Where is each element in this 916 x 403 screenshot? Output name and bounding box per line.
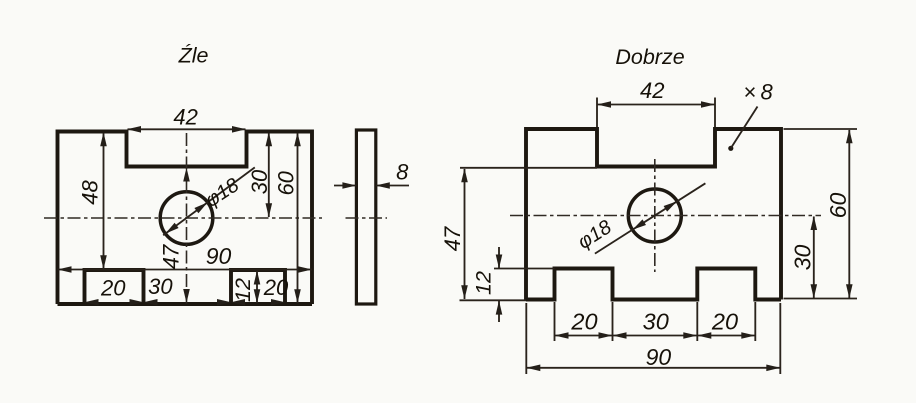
svg-text:30: 30: [790, 245, 816, 271]
dimension 47 right view: [460, 167, 597, 169]
svg-text:42: 42: [173, 105, 197, 130]
left view horizontal centerline: [44, 217, 322, 219]
svg-text:47: 47: [159, 244, 184, 269]
left view bottom notch 2: [231, 270, 285, 304]
dimension 30 left view: [268, 133, 270, 217]
svg-text:Dobrze: Dobrze: [615, 45, 684, 69]
svg-text:30: 30: [148, 274, 173, 299]
dimension 42 right view: [596, 98, 598, 128]
svg-text:60: 60: [274, 170, 299, 195]
dimension 42 top: [128, 128, 246, 130]
note x8 thickness: [728, 146, 733, 151]
dimension 20 bottom-left: [85, 299, 99, 306]
svg-text:φ18: φ18: [574, 216, 616, 254]
svg-text:12: 12: [231, 278, 255, 302]
dimension 12 left view: [256, 271, 258, 303]
dimension 30 bottom: [144, 299, 158, 306]
svg-text:30: 30: [643, 309, 669, 335]
dimension 60 left view: [297, 133, 299, 303]
dimension 47 left view: [183, 168, 190, 182]
extension lines right side: [784, 128, 858, 130]
svg-text:20: 20: [711, 309, 738, 335]
dimension 30 right side: [813, 217, 815, 299]
dimension 90 left view: [58, 269, 313, 271]
dimension 12 right view: [494, 268, 555, 270]
svg-text:90: 90: [206, 243, 232, 269]
left view vertical centerline: [186, 133, 188, 304]
svg-text:20: 20: [570, 309, 597, 335]
side view centerline: [346, 217, 388, 219]
svg-text:42: 42: [640, 78, 664, 103]
svg-text:20: 20: [100, 276, 126, 301]
dimension phi18 right view: [595, 183, 706, 253]
dimension 48: [103, 133, 105, 269]
dimension 20 right view right: [697, 335, 755, 337]
right view vertical centerline: [654, 159, 656, 272]
svg-text:20: 20: [263, 275, 289, 300]
svg-text:48: 48: [78, 180, 103, 205]
extension lines bottom dims: [554, 302, 556, 341]
right view horizontal centerline: [510, 215, 821, 217]
dimension 20 bottom-right: [231, 299, 245, 306]
svg-text:47: 47: [440, 226, 465, 251]
right view bottom edge with notches: [526, 269, 781, 300]
dimension 30 right view bottom: [613, 335, 698, 337]
right view hole: [628, 189, 681, 242]
svg-text:Źle: Źle: [178, 42, 209, 67]
dimension 20 right view left: [555, 335, 613, 337]
svg-text:90: 90: [646, 344, 672, 370]
svg-text:12: 12: [472, 271, 496, 295]
left view bottom notch 1: [85, 270, 144, 304]
dimension 60 right side: [848, 130, 850, 298]
left view hole: [160, 192, 213, 245]
dimension phi18 left view: [163, 167, 255, 235]
svg-text:8: 8: [396, 160, 409, 185]
dimension 8 thickness: [334, 185, 356, 187]
right view plate outline: [526, 129, 781, 300]
left view plate outline: [58, 132, 313, 305]
svg-text:× 8: × 8: [743, 80, 773, 105]
svg-text:30: 30: [247, 169, 272, 194]
dimension 90 right view: [525, 303, 527, 374]
svg-text:60: 60: [825, 193, 851, 219]
side view outline: [356, 130, 375, 304]
